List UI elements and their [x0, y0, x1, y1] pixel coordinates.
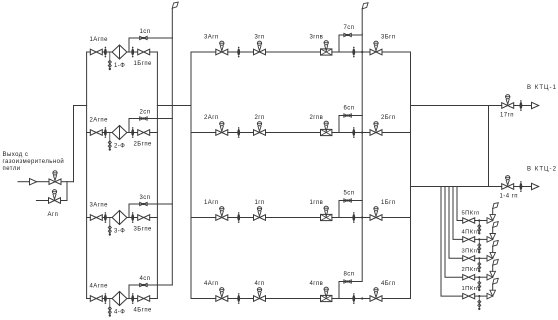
drain 1ПК [478, 296, 481, 310]
valve 1сп [140, 36, 148, 39]
actuator of 2гп [257, 122, 261, 132]
wire run 2 seg4 [332, 132, 370, 134]
svg-text:5ПКгп: 5ПКгп [462, 211, 480, 217]
svg-text:1ПКгп: 1ПКгп [462, 286, 480, 292]
drain 5ПК [478, 221, 481, 235]
wire row 1 from header [87, 51, 91, 53]
svg-text:Выход с: Выход с [3, 152, 29, 158]
wire run 4 seg2 [228, 298, 254, 300]
valve 1-4 гп [502, 184, 514, 190]
drain of filter 2 [108, 133, 111, 151]
svg-text:1-Ф: 1-Ф [114, 63, 125, 69]
actuator of 3Агп [220, 41, 224, 51]
wire to filter 3 [102, 217, 112, 219]
orifice run 3 a [237, 47, 240, 58]
wire header crossover bus [157, 105, 191, 107]
actuator of 1Агп [220, 207, 224, 217]
orifice after filter 3 [131, 212, 134, 223]
actuator of reserve valve [52, 190, 56, 200]
svg-text:3гп: 3гп [255, 35, 265, 41]
svg-text:4Агп: 4Агп [204, 281, 219, 287]
vent flag 1 [172, 2, 178, 8]
valve 5ПКгп [463, 218, 475, 223]
orifice output 1 [520, 100, 523, 111]
orifice run 3 b [352, 47, 355, 58]
valve 3Бгп [370, 49, 382, 55]
wire run 1 to collector [382, 217, 411, 219]
orifice after filter 4 [131, 293, 134, 304]
collector header [410, 52, 412, 299]
svg-text:2-Ф: 2-Ф [114, 144, 125, 150]
orifice output 2 [520, 181, 523, 192]
wire to relief 3 [475, 257, 487, 259]
svg-text:1гп: 1гп [255, 200, 265, 206]
svg-text:2гпв: 2гпв [310, 115, 324, 121]
svg-text:2гп: 2гп [255, 115, 265, 121]
relief valve 5ПК [487, 215, 496, 224]
orifice run 2 b [352, 127, 355, 138]
valve 1Агпе [90, 49, 102, 55]
wire run 4 from header [191, 298, 216, 300]
actuator of 1гпв [324, 206, 328, 216]
actuator of Агп [53, 171, 57, 181]
valve 4Агп [216, 296, 228, 302]
vent stack 1 pole [171, 8, 173, 38]
wire collector right leg [488, 106, 490, 187]
svg-text:3Агп: 3Агп [204, 35, 219, 41]
wire to relief 4 [475, 238, 487, 240]
wire to filter 2 [102, 132, 112, 134]
wire run 2 seg2 [228, 132, 254, 134]
actuator of 4Бгп [374, 288, 378, 298]
svg-text:3сп: 3сп [140, 195, 151, 201]
actuator of 1гп [257, 207, 261, 217]
svg-text:4-Ф: 4-Ф [114, 310, 125, 316]
wire run 3 from header [191, 51, 216, 53]
actuator of 2Бгп [374, 122, 378, 132]
wire bypass 6сп [339, 116, 362, 133]
vent pole 4ПК [492, 227, 494, 233]
vent stack 2 [361, 34, 363, 281]
control valve 4гпв [321, 295, 332, 301]
actuator of 3гпв [324, 41, 328, 51]
wire run 3 seg3 [266, 51, 321, 53]
wire run 4 seg4 [332, 298, 370, 300]
valve 2ПКгп [463, 275, 475, 280]
actuator of 4гпв [324, 287, 328, 297]
wire output 1 seg2 [514, 105, 532, 107]
valve 2гп [254, 130, 266, 136]
svg-text:1Бгп: 1Бгп [381, 200, 396, 206]
actuator of 1Бгп [374, 207, 378, 217]
svg-text:2сп: 2сп [140, 110, 151, 116]
valve 3сп [140, 202, 148, 205]
valve 1Бгп [370, 215, 382, 221]
valve 3Бгпе [138, 215, 150, 221]
orifice before filter 1 [104, 47, 107, 58]
valve Агп reserve [49, 198, 61, 204]
svg-text:2Агпе: 2Агпе [90, 118, 109, 124]
valve 4Бгп [370, 296, 382, 302]
wire after filter 2 [127, 132, 137, 134]
valve 4Бгпе [138, 296, 150, 302]
wire bypass 2сп [129, 119, 172, 133]
actuator of 2Агп [220, 122, 224, 132]
wire branch-2 to junction [61, 200, 68, 202]
svg-text:5сп: 5сп [344, 191, 355, 197]
svg-text:2Бгп: 2Бгп [381, 115, 396, 121]
valve 4Агпе [90, 296, 102, 302]
check valve inlet [30, 179, 37, 185]
wire to relief 5 [475, 220, 487, 222]
wire run 3 to collector [382, 51, 411, 53]
svg-text:3гпв: 3гпв [310, 35, 324, 41]
valve 2Агп [216, 130, 228, 136]
valve 3гп [254, 49, 266, 55]
wire to relief 2 [475, 276, 487, 278]
valve 4ПКгп [463, 237, 475, 242]
actuator of 17гп [506, 95, 510, 105]
svg-text:1сп: 1сп [140, 29, 151, 35]
wire run 1 from header [191, 217, 216, 219]
valve 5сп [344, 199, 352, 202]
wire output 1 [411, 105, 502, 107]
control valve 1гпв [321, 214, 332, 220]
wire to valve Агп [37, 181, 49, 183]
svg-text:петли: петли [3, 166, 21, 172]
drain 4ПК [478, 239, 481, 253]
svg-text:17гп: 17гп [500, 113, 514, 119]
vent pole 3ПК [492, 246, 494, 252]
actuator of 1-4 гп [506, 176, 510, 186]
wire output 2 [411, 186, 502, 188]
svg-text:7сп: 7сп [344, 25, 355, 31]
valve 1ПКгп [463, 293, 475, 298]
left inlet header [86, 52, 88, 299]
wire row 2 from header [87, 132, 91, 134]
vent pole 1ПК [492, 284, 494, 290]
valve 8сп [344, 280, 352, 283]
wire after Агп [61, 181, 74, 183]
svg-text:2Агп: 2Агп [204, 115, 219, 121]
flow arrow to КТЦ-1 [532, 102, 539, 108]
wire feed 3ПКгп [449, 187, 462, 259]
svg-text:В КТЦ-1: В КТЦ-1 [527, 85, 557, 91]
vent pole 5ПК [492, 209, 494, 215]
svg-text:Агп: Агп [48, 212, 59, 218]
valve 4гп [254, 296, 266, 302]
actuator of 2гпв [324, 121, 328, 131]
svg-text:1Агп: 1Агп [204, 200, 219, 206]
filter 2-Ф [112, 126, 127, 140]
svg-text:4гпв: 4гпв [310, 281, 324, 287]
control valve 3гпв [321, 49, 332, 55]
svg-text:4сп: 4сп [140, 276, 151, 282]
wire run 2 seg3 [266, 132, 321, 134]
orifice before filter 4 [104, 293, 107, 304]
wire row 1 to header [150, 51, 158, 53]
wire output 2 seg2 [514, 186, 532, 188]
valve 2Бгп [370, 130, 382, 136]
wire bypass 4сп [129, 285, 172, 299]
valve 2сп [140, 117, 148, 120]
actuator of 3гп [257, 41, 261, 51]
valve 17гп [502, 103, 514, 109]
flow arrow to КТЦ-2 [532, 183, 539, 189]
wire inlet from loop [18, 181, 29, 183]
valve 1гп [254, 215, 266, 221]
valve 2Бгпе [138, 130, 150, 136]
svg-text:3Бгп: 3Бгп [381, 35, 396, 41]
svg-text:4Бгп: 4Бгп [381, 281, 396, 287]
vent pole 2ПК [492, 265, 494, 271]
svg-text:газоизмерительной: газоизмерительной [3, 158, 65, 165]
vent flag 4ПК [493, 222, 499, 228]
svg-text:4гп: 4гп [255, 281, 265, 287]
wire feed 1ПКгп [441, 187, 462, 297]
svg-text:2ПКгп: 2ПКгп [462, 267, 480, 273]
vent flag 5ПК [493, 203, 499, 209]
orifice after filter 1 [131, 47, 134, 58]
drain of filter 1 [108, 52, 111, 70]
wire row 3 to header [150, 217, 158, 219]
vent stack 1 [171, 38, 173, 285]
left outlet header [156, 52, 158, 299]
wire run 4 to collector [382, 298, 411, 300]
valve 1Агп [216, 215, 228, 221]
vent flag 2 [362, 3, 368, 9]
relief valve 1ПК [487, 290, 496, 299]
wire feed 2ПКгп [445, 187, 462, 278]
vent flag 1ПК [493, 278, 499, 284]
wire after filter 3 [127, 217, 137, 219]
wire feed 4ПКгп [453, 187, 462, 240]
svg-text:3Бгпе: 3Бгпе [134, 227, 153, 233]
filter 4-Ф [112, 292, 127, 306]
vent stack 2 pole [361, 9, 363, 34]
valve 6сп [344, 114, 352, 117]
drain 2ПК [478, 277, 481, 291]
wire run 3 seg4 [332, 51, 370, 53]
drain 3ПК [478, 258, 481, 272]
orifice run 2 a [237, 127, 240, 138]
wire run 3 seg2 [228, 51, 254, 53]
svg-text:6сп: 6сп [344, 106, 355, 112]
vent flag 3ПК [493, 241, 499, 247]
wire run 4 seg3 [266, 298, 321, 300]
valve 3ПКгп [463, 256, 475, 261]
wire branch-2 stub [36, 200, 48, 202]
svg-text:В КТЦ-2: В КТЦ-2 [527, 167, 557, 173]
relief valve 3ПК [487, 252, 496, 261]
actuator of 3Бгп [374, 41, 378, 51]
filter 3-Ф [112, 211, 127, 225]
orifice before filter 2 [104, 127, 107, 138]
wire bypass 7сп [339, 35, 362, 52]
svg-text:1Агпе: 1Агпе [90, 37, 109, 43]
svg-text:3Агпе: 3Агпе [90, 203, 109, 209]
wire to filter 4 [102, 298, 112, 300]
wire bypass 3сп [129, 204, 172, 218]
middle inlet header [190, 52, 192, 299]
orifice run 1 a [237, 212, 240, 223]
actuator of 4Агп [220, 288, 224, 298]
control valve 2гпв [321, 129, 332, 135]
svg-text:1гпв: 1гпв [310, 200, 324, 206]
wire row 3 from header [87, 217, 91, 219]
wire branch-2 riser [66, 182, 68, 201]
filter 1-Ф [112, 45, 127, 59]
wire run 2 to collector [382, 132, 411, 134]
wire bypass 1сп [129, 38, 172, 52]
svg-text:4ПКгп: 4ПКгп [462, 229, 480, 235]
svg-text:3ПКгп: 3ПКгп [462, 248, 480, 254]
valve 4сп [140, 283, 148, 286]
wire after filter 1 [127, 51, 137, 53]
wire to filter 1 [102, 51, 112, 53]
wire to relief 1 [475, 295, 487, 297]
actuator of 4гп [257, 288, 261, 298]
svg-text:8сп: 8сп [344, 272, 355, 278]
drain of filter 4 [108, 299, 111, 317]
svg-text:1-4 гп: 1-4 гп [500, 193, 518, 199]
wire bypass 5сп [339, 201, 362, 218]
orifice run 4 a [237, 293, 240, 304]
wire feed 5ПКгп [457, 187, 462, 221]
valve 1Бгпе [138, 49, 150, 55]
wire run 1 seg3 [266, 217, 321, 219]
valve 3Агп [216, 49, 228, 55]
wire run 1 seg2 [228, 217, 254, 219]
drain of filter 3 [108, 218, 111, 236]
valve 7сп [344, 33, 352, 36]
svg-text:4Бгпе: 4Бгпе [134, 308, 153, 314]
wire inlet riser to left header [74, 106, 87, 182]
orifice after filter 2 [131, 127, 134, 138]
wire run 1 seg4 [332, 217, 370, 219]
wire row 2 to header [150, 132, 158, 134]
svg-text:1Бгпе: 1Бгпе [134, 61, 153, 67]
orifice run 4 b [352, 293, 355, 304]
wire bypass 8сп [339, 282, 362, 299]
valve Агп [49, 179, 61, 185]
wire row 4 from header [87, 298, 91, 300]
vent flag 2ПК [493, 259, 499, 265]
svg-text:4Агпе: 4Агпе [90, 284, 109, 290]
wire after filter 4 [127, 298, 137, 300]
svg-text:2Бгпе: 2Бгпе [134, 142, 153, 148]
valve 3Агпе [90, 215, 102, 221]
wire row 4 to header [150, 298, 158, 300]
orifice run 1 b [352, 212, 355, 223]
orifice before filter 3 [104, 212, 107, 223]
wire run 2 from header [191, 132, 216, 134]
svg-text:3-Ф: 3-Ф [114, 229, 125, 235]
relief valve 2ПК [487, 271, 496, 280]
valve 2Агпе [90, 130, 102, 136]
relief valve 4ПК [487, 234, 496, 243]
